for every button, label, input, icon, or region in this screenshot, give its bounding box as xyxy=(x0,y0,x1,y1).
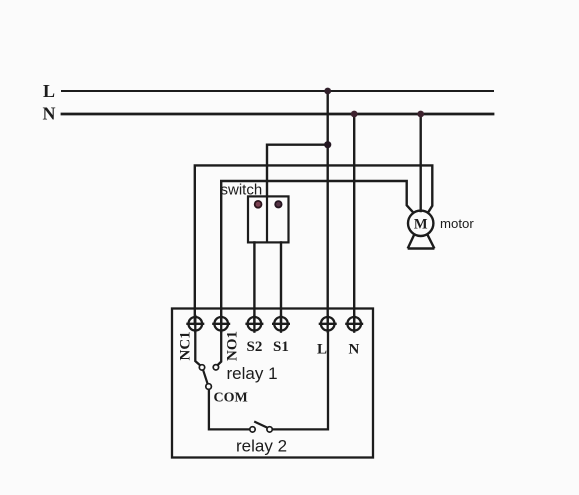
terminal NO1 xyxy=(212,315,230,333)
svg-text:COM: COM xyxy=(214,391,248,406)
svg-text:S1: S1 xyxy=(273,339,289,355)
junction dot at L branch corner xyxy=(324,141,331,148)
junction dot on N line at x354 xyxy=(351,111,358,118)
terminal S2 xyxy=(245,315,263,333)
svg-text:N: N xyxy=(349,342,360,358)
svg-text:L: L xyxy=(43,81,55,101)
relay module box xyxy=(172,309,373,458)
wire switch S1 down xyxy=(280,242,282,324)
svg-text:motor: motor xyxy=(440,216,474,231)
wire L feed down to relay L terminal xyxy=(327,91,329,324)
wire NC1 to motor right xyxy=(195,165,432,324)
switch indicator dot left xyxy=(255,201,262,208)
svg-text:M: M xyxy=(414,217,428,233)
relay 1 lever xyxy=(203,370,207,384)
power line N xyxy=(62,113,493,116)
relay 1 pivot circle COM xyxy=(206,384,212,390)
switch box divider xyxy=(266,196,268,242)
terminal NC1 xyxy=(186,315,204,333)
wire N down to motor xyxy=(420,114,422,211)
terminal L xyxy=(319,315,337,333)
terminal S1 xyxy=(272,315,290,333)
relay 1 wire from NO1 xyxy=(218,330,222,365)
wire NO1 to motor left xyxy=(221,181,413,324)
svg-text:relay 1: relay 1 xyxy=(227,364,278,383)
svg-text:NC1: NC1 xyxy=(178,331,194,360)
switch indicator dot right xyxy=(275,201,281,207)
relay 2 lever xyxy=(254,422,267,428)
svg-text:S2: S2 xyxy=(247,339,263,355)
terminal N xyxy=(345,315,363,333)
wire branch L to switch common xyxy=(267,145,328,197)
junction dot on N line at motor feed xyxy=(417,111,424,118)
wire N feed down to relay N terminal xyxy=(353,114,355,324)
wire relay 2 to L terminal xyxy=(272,330,328,429)
svg-text:switch: switch xyxy=(221,182,263,199)
svg-text:N: N xyxy=(43,104,56,124)
svg-text:relay 2: relay 2 xyxy=(236,437,287,456)
relay 1 contact circle NC1 xyxy=(199,365,204,370)
power line L xyxy=(62,90,493,92)
wire switch S2 down xyxy=(253,242,255,324)
relay 2 contact circle left xyxy=(250,427,255,432)
motor M1 xyxy=(408,211,435,249)
relay 2 contact circle right xyxy=(267,427,272,432)
relay 1 wire from NC1 xyxy=(195,330,200,366)
svg-text:NO1: NO1 xyxy=(225,331,241,361)
svg-text:L: L xyxy=(317,342,327,358)
wire COM down and right to relay 2 xyxy=(209,389,250,429)
junction dot on L line xyxy=(324,88,331,95)
switch box xyxy=(248,196,289,242)
relay 1 contact circle NO1 xyxy=(213,365,218,370)
